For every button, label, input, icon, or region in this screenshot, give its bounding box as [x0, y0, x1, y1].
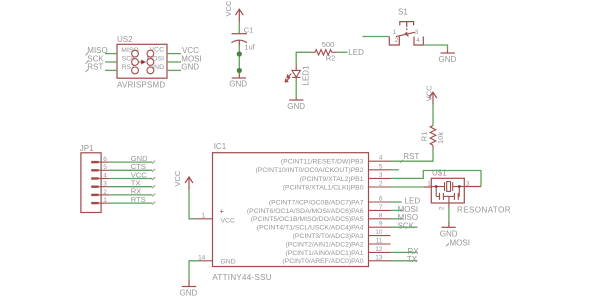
svg-text:13: 13 — [375, 254, 383, 261]
svg-text:VCC: VCC — [224, 0, 233, 16]
svg-text:6: 6 — [379, 196, 383, 203]
svg-text:RTS: RTS — [131, 195, 146, 204]
svg-text:9: 9 — [379, 221, 383, 228]
svg-text:RESONATOR: RESONATOR — [457, 205, 511, 214]
svg-text:1: 1 — [103, 197, 107, 204]
svg-text:R2: R2 — [326, 54, 336, 63]
svg-text:(PCINT0/AREF/ADC0)PA0: (PCINT0/AREF/ADC0)PA0 — [282, 258, 363, 265]
svg-text:500: 500 — [322, 40, 335, 49]
svg-text:12: 12 — [375, 246, 383, 253]
svg-text:S1: S1 — [398, 7, 408, 16]
svg-text:(PCINT4/T1/SCL/USCK/ADC4)PA4: (PCINT4/T1/SCL/USCK/ADC4)PA4 — [257, 225, 364, 232]
svg-text:6: 6 — [103, 156, 107, 163]
svg-text:1uf: 1uf — [244, 42, 255, 51]
svg-text:8: 8 — [379, 212, 383, 219]
svg-text:+: + — [220, 207, 225, 216]
svg-text:(PCINT10/INT0/OC0A/CKOUT)PB2: (PCINT10/INT0/OC0A/CKOUT)PB2 — [255, 167, 363, 174]
svg-text:TX: TX — [407, 255, 418, 264]
svg-text:10: 10 — [375, 229, 383, 236]
svg-text:MOSI: MOSI — [450, 238, 470, 247]
svg-text:AVRISPSMD: AVRISPSMD — [117, 81, 165, 90]
svg-text:US2: US2 — [117, 35, 133, 44]
svg-text:2: 2 — [379, 181, 383, 188]
svg-text:7: 7 — [379, 204, 383, 211]
svg-text:R1: R1 — [420, 132, 429, 142]
svg-text:VCC: VCC — [221, 218, 235, 225]
svg-text:3: 3 — [379, 172, 383, 179]
svg-text:GND: GND — [440, 229, 458, 238]
svg-text:(PCINT9/XTAL2)PB1: (PCINT9/XTAL2)PB1 — [300, 176, 364, 183]
svg-text:(PCINT1/AIN0/ADC1)PA1: (PCINT1/AIN0/ADC1)PA1 — [285, 250, 363, 257]
svg-text:GND: GND — [180, 288, 198, 297]
svg-text:3: 3 — [103, 181, 107, 188]
svg-text:1: 1 — [202, 212, 206, 219]
svg-text:C1: C1 — [244, 26, 254, 35]
svg-text:10k: 10k — [436, 132, 445, 144]
svg-text:GND: GND — [181, 63, 199, 72]
svg-text:ATTINY44-SSU: ATTINY44-SSU — [212, 273, 271, 282]
svg-text:RST: RST — [87, 63, 103, 72]
svg-text:2: 2 — [103, 189, 107, 196]
svg-text:(PCINT2/AIN1/ADC2)PA2: (PCINT2/AIN1/ADC2)PA2 — [285, 241, 363, 248]
svg-text:(PCINT3/T0/ADC3)PA3: (PCINT3/T0/ADC3)PA3 — [293, 233, 364, 240]
svg-text:VCC: VCC — [173, 170, 182, 186]
svg-text:GND: GND — [221, 258, 236, 265]
svg-text:(PCINT8/XTAL1/CLKI)PB0: (PCINT8/XTAL1/CLKI)PB0 — [283, 184, 364, 191]
svg-text:LED: LED — [348, 48, 364, 57]
svg-text:5: 5 — [379, 163, 383, 170]
svg-text:4: 4 — [379, 155, 383, 162]
svg-text:4: 4 — [416, 37, 420, 44]
svg-text:2: 2 — [438, 206, 445, 210]
svg-text:GND: GND — [439, 55, 457, 64]
svg-text:JP1: JP1 — [80, 144, 94, 153]
svg-text:GND: GND — [229, 79, 247, 88]
svg-text:(PCINT6/OC1A/SDA/MOSI/ADC6)PA6: (PCINT6/OC1A/SDA/MOSI/ADC6)PA6 — [247, 208, 364, 215]
svg-text:11: 11 — [376, 238, 383, 245]
svg-text:4: 4 — [103, 172, 107, 179]
svg-text:RST: RST — [403, 152, 419, 161]
svg-text:(PCINT5/OC1B/MISO/DO/ADC5)PA5: (PCINT5/OC1B/MISO/DO/ADC5)PA5 — [251, 216, 364, 223]
svg-text:2: 2 — [395, 37, 399, 44]
svg-text:(PCINT7/ICP/OC0B/ADC7)PA7: (PCINT7/ICP/OC0B/ADC7)PA7 — [269, 199, 364, 206]
svg-text:5: 5 — [103, 164, 107, 171]
svg-text:3: 3 — [415, 29, 419, 36]
svg-text:(PCINT11/RESET/DW)PB3: (PCINT11/RESET/DW)PB3 — [281, 159, 364, 166]
svg-text:GND: GND — [287, 102, 305, 111]
svg-text:IC1: IC1 — [214, 142, 227, 151]
svg-text:LED1: LED1 — [302, 65, 311, 86]
svg-text:1: 1 — [393, 29, 397, 36]
svg-text:SCK: SCK — [398, 222, 415, 231]
